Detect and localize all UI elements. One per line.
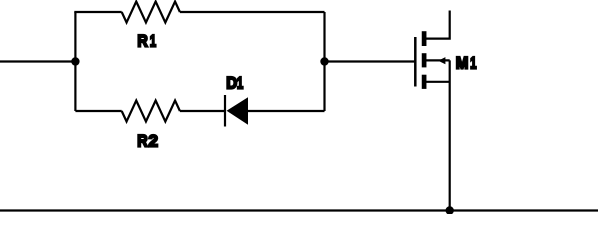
svg-text:1: 1 bbox=[150, 31, 156, 50]
wire right vertical branch merge bbox=[323, 12, 325, 111]
transistor M1 channel bottom bar bbox=[422, 75, 427, 89]
transistor M1 source stub bbox=[425, 81, 450, 83]
transistor M1 channel middle bar bbox=[422, 53, 427, 67]
wire resistor R2 to diode D1 bbox=[180, 110, 225, 112]
diode D1 anode triangle bbox=[227, 97, 248, 125]
diode D1 cathode bar bbox=[224, 95, 226, 127]
svg-text:1: 1 bbox=[470, 54, 476, 73]
resistor R2 bbox=[122, 101, 180, 122]
wire left vertical branch split bbox=[74, 12, 76, 111]
wire bottom branch left segment bbox=[75, 110, 121, 112]
wire source of M1 down to bottom rail bbox=[449, 60, 451, 210]
wire top branch right segment bbox=[180, 11, 325, 13]
node output junction bbox=[320, 57, 328, 65]
wire top branch left segment bbox=[74, 11, 121, 13]
wire input from left edge bbox=[0, 60, 75, 62]
svg-text:R: R bbox=[137, 31, 147, 50]
transistor M1 channel top bar bbox=[422, 31, 427, 46]
svg-text:M: M bbox=[456, 54, 469, 73]
svg-text:2: 2 bbox=[149, 131, 158, 150]
svg-text:R: R bbox=[137, 131, 147, 150]
node source junction on bottom rail bbox=[446, 206, 454, 214]
wire diode D1 to right junction bbox=[248, 110, 325, 112]
node input junction bbox=[71, 57, 79, 65]
svg-text:D: D bbox=[226, 74, 237, 93]
transistor M1 body arrow bbox=[438, 57, 445, 64]
svg-text:1: 1 bbox=[237, 74, 243, 93]
wire junction to gate of M1 bbox=[325, 60, 416, 62]
wire bottom rail bbox=[0, 209, 598, 211]
transistor M1 drain stub and up lead bbox=[425, 11, 450, 39]
resistor R1 bbox=[122, 2, 180, 23]
transistor M1 body stub bbox=[425, 59, 450, 61]
transistor M1 gate line bbox=[414, 37, 417, 87]
